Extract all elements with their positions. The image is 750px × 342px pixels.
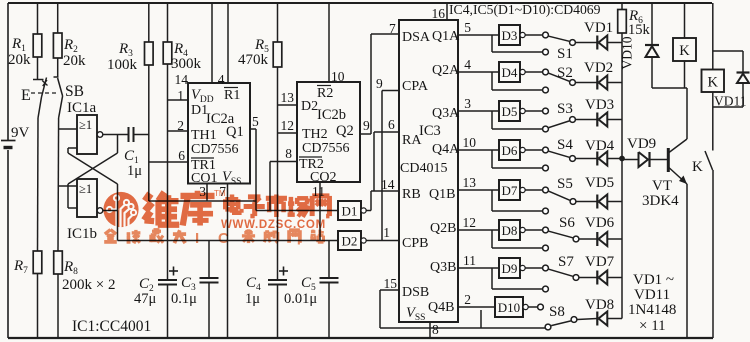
svg-text:4: 4 xyxy=(218,72,225,87)
svg-text:VD2: VD2 xyxy=(584,60,613,76)
svg-text:Q2A: Q2A xyxy=(432,63,460,78)
svg-text:2: 2 xyxy=(177,118,184,133)
svg-text:D4: D4 xyxy=(502,65,518,80)
svg-text:1μ: 1μ xyxy=(245,291,260,307)
svg-text:DSB: DSB xyxy=(402,285,429,300)
svg-text:9V: 9V xyxy=(11,125,30,141)
svg-text:8: 8 xyxy=(285,146,292,161)
svg-text:TH1: TH1 xyxy=(191,128,217,143)
svg-text:VD4: VD4 xyxy=(585,138,615,154)
svg-text:3: 3 xyxy=(464,96,471,111)
svg-text:200k × 2: 200k × 2 xyxy=(62,277,115,293)
svg-text:100k: 100k xyxy=(107,57,138,73)
svg-text:13: 13 xyxy=(281,90,295,105)
svg-text:CD7556: CD7556 xyxy=(191,142,238,157)
svg-text:13: 13 xyxy=(463,175,477,190)
svg-text:D3: D3 xyxy=(502,28,518,43)
svg-text:Q4B: Q4B xyxy=(428,300,454,315)
svg-text:15k: 15k xyxy=(628,22,651,38)
svg-text:D9: D9 xyxy=(502,261,518,276)
svg-text:5: 5 xyxy=(464,20,471,35)
svg-text:15: 15 xyxy=(384,276,398,291)
svg-text:47μ: 47μ xyxy=(134,291,157,307)
svg-text:≥1: ≥1 xyxy=(79,182,92,196)
svg-text:IC1a: IC1a xyxy=(67,100,97,116)
svg-text:VD11: VD11 xyxy=(714,94,747,109)
svg-text:2: 2 xyxy=(464,292,471,307)
svg-text:Q2B: Q2B xyxy=(430,221,456,236)
svg-text:VD1: VD1 xyxy=(584,20,613,36)
svg-text:S8: S8 xyxy=(549,304,565,320)
svg-text:10: 10 xyxy=(463,135,477,150)
svg-text:6: 6 xyxy=(178,148,185,163)
svg-text:0.1μ: 0.1μ xyxy=(171,291,197,307)
svg-text:D6: D6 xyxy=(502,143,518,158)
svg-text:S3: S3 xyxy=(557,101,573,117)
svg-text:D5: D5 xyxy=(502,104,518,119)
svg-text:1: 1 xyxy=(177,88,184,103)
svg-text:CPA: CPA xyxy=(402,79,429,94)
svg-text:VD3: VD3 xyxy=(585,97,614,113)
svg-text:VD8: VD8 xyxy=(585,297,614,313)
svg-text:D8: D8 xyxy=(502,223,518,238)
svg-text:0.01μ: 0.01μ xyxy=(284,291,317,307)
svg-text:470k: 470k xyxy=(238,52,269,68)
svg-text:CO2: CO2 xyxy=(310,170,336,185)
svg-text:IC4,IC5(D1~D10):CD4069: IC4,IC5(D1~D10):CD4069 xyxy=(449,2,601,18)
svg-text:3DK4: 3DK4 xyxy=(642,193,679,209)
svg-text:Q1A: Q1A xyxy=(432,29,460,44)
svg-text:1N4148: 1N4148 xyxy=(628,302,676,318)
svg-text:I: I xyxy=(195,230,199,247)
svg-text:CPB: CPB xyxy=(402,236,428,251)
svg-text:Q3A: Q3A xyxy=(432,106,460,121)
svg-text:D1: D1 xyxy=(342,203,358,218)
svg-text:IC2b: IC2b xyxy=(317,107,346,123)
svg-text:7: 7 xyxy=(389,21,396,36)
svg-text:Q4A: Q4A xyxy=(432,142,460,157)
svg-text:S1: S1 xyxy=(557,46,573,62)
svg-text:VD5: VD5 xyxy=(585,175,614,191)
svg-text:11: 11 xyxy=(463,253,476,268)
svg-text:Q3B: Q3B xyxy=(430,260,456,275)
svg-text:S2: S2 xyxy=(557,65,573,81)
svg-text:R2: R2 xyxy=(317,86,333,101)
svg-text:K: K xyxy=(692,159,703,175)
svg-text:CD7556: CD7556 xyxy=(302,141,349,156)
svg-text:SB: SB xyxy=(65,83,84,100)
svg-text:≥1: ≥1 xyxy=(79,118,92,132)
svg-text:× 11: × 11 xyxy=(639,318,666,334)
svg-text:RB: RB xyxy=(402,187,421,202)
svg-text:300k: 300k xyxy=(171,56,202,72)
svg-text:4: 4 xyxy=(464,57,471,72)
svg-text:S4: S4 xyxy=(557,137,573,153)
svg-text:6: 6 xyxy=(388,117,395,132)
svg-text:20k: 20k xyxy=(63,53,86,69)
svg-text:S6: S6 xyxy=(559,215,575,231)
svg-text:R1: R1 xyxy=(224,88,240,103)
svg-text:VD9: VD9 xyxy=(627,136,656,152)
svg-text:8: 8 xyxy=(432,322,439,337)
svg-text:20k: 20k xyxy=(8,52,31,68)
svg-text:5: 5 xyxy=(252,114,259,129)
svg-text:9: 9 xyxy=(363,118,370,133)
svg-text:S5: S5 xyxy=(557,176,573,192)
svg-text:VD6: VD6 xyxy=(585,215,615,231)
svg-text:12: 12 xyxy=(281,118,295,133)
svg-text:K: K xyxy=(679,43,690,59)
svg-text:TM: TM xyxy=(214,189,226,198)
svg-text:VT: VT xyxy=(652,178,672,194)
svg-text:VD11: VD11 xyxy=(634,287,670,303)
svg-text:Q1: Q1 xyxy=(226,124,244,140)
svg-text:S7: S7 xyxy=(558,254,574,270)
svg-text:IC3: IC3 xyxy=(419,123,441,139)
svg-text:Q2: Q2 xyxy=(336,123,354,139)
svg-text:9: 9 xyxy=(376,76,383,91)
svg-text:VD7: VD7 xyxy=(585,254,615,270)
svg-text:WWW.DZSC.COM: WWW.DZSC.COM xyxy=(221,219,326,231)
svg-text:CD4015: CD4015 xyxy=(400,161,447,176)
svg-text:VD1 ~: VD1 ~ xyxy=(633,272,674,288)
svg-text:1: 1 xyxy=(383,225,390,240)
svg-text:VD10: VD10 xyxy=(620,36,635,69)
svg-text:14: 14 xyxy=(175,72,189,87)
svg-text:IC1:CC4001: IC1:CC4001 xyxy=(72,318,151,335)
svg-text:Q1B: Q1B xyxy=(429,187,455,202)
svg-text:12: 12 xyxy=(463,215,477,230)
svg-text:D7: D7 xyxy=(502,183,518,198)
svg-text:14: 14 xyxy=(381,177,395,192)
svg-text:16: 16 xyxy=(432,6,446,21)
svg-text:E: E xyxy=(21,87,31,104)
svg-text:K: K xyxy=(708,75,719,91)
svg-text:C: C xyxy=(218,230,229,247)
svg-text:TH2: TH2 xyxy=(302,127,328,142)
svg-text:IC1b: IC1b xyxy=(67,226,97,242)
svg-text:DSA: DSA xyxy=(402,30,431,45)
svg-text:10: 10 xyxy=(331,69,345,84)
svg-text:D2: D2 xyxy=(342,233,358,248)
svg-text:D2: D2 xyxy=(301,99,318,114)
svg-text:D10: D10 xyxy=(498,300,520,315)
svg-text:1μ: 1μ xyxy=(127,163,142,179)
